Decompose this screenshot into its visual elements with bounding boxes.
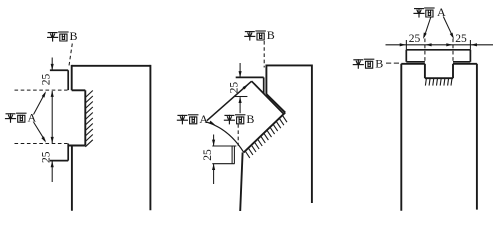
fig3 extension tick left [405,40,407,50]
svg-text:25: 25 [41,74,53,86]
fig3 slot left wall [424,64,426,78]
svg-text:A: A [437,5,446,19]
fig2 hatching on 45-degree face [245,115,287,158]
fig1 recess bottom step [68,145,85,147]
fig3 arrow dim outer left [400,43,406,46]
fig2 top end piece vertical (plane B end) [263,77,265,93]
fig3 plate bottom face right segment (plane B) [453,61,470,63]
svg-text:B: B [246,112,254,126]
fig1 plate face lower segment (plane B) [67,144,69,161]
fig1 arrow top dim down [51,64,54,70]
fig1 block left edge upper [71,65,73,90]
fig1 arrow span down [51,137,54,143]
fig2 extension line mid [234,96,247,98]
fig1 middle span line [51,91,53,143]
fig3 extension tick right [469,40,471,50]
fig1 plate top end edge [50,69,68,71]
fig1 plate face upper segment (plane B) [67,70,69,90]
fig1 plate bottom end edge [50,160,68,162]
svg-text:25: 25 [229,82,241,94]
fig3 block top edge right [453,63,477,65]
fig2 label plane B top [245,28,275,42]
fig2 bottom dimension line lower [213,164,215,184]
fig1 arrow bottom dim up [51,161,54,167]
fig3 label plane B [353,56,383,70]
fig1 label plane A [6,110,37,124]
fig3 plane A leader right [443,17,452,36]
fig3 plane A leader left [424,17,431,37]
fig3 arrow dim inner right [446,43,452,46]
fig1 dashed limit line lower [15,143,68,145]
fig3 dimension line [386,44,494,46]
fig3 arrow dim inner left [425,43,431,46]
fig2 top end piece horizontal [236,76,264,78]
svg-text:B: B [375,56,383,70]
fig1 bottom dimension line [51,161,53,182]
fig1 recess top step [72,89,86,91]
fig2 plate lower-left edge as curved leader [206,122,243,152]
svg-text:25: 25 [455,33,467,45]
fig2 arrow leader upper [243,83,250,89]
fig3 arrow leader right [450,33,456,40]
fig3 dashed slot wall extension right [452,39,454,62]
fig2 block top edge [266,64,312,66]
fig1 arrow span up [51,91,54,97]
fig1 label plane B [48,29,78,43]
svg-text:25: 25 [202,149,214,161]
fig1 arrow leader lower [41,136,47,143]
svg-text:25: 25 [409,33,421,45]
svg-text:A: A [28,110,37,124]
fig2 dashed leader from plane B middle label [237,124,239,146]
fig2 notch chamfer upper wall [266,94,285,113]
fig3 block right edge [476,64,478,210]
fig1 arrow leader upper [42,91,48,98]
fig3 plate top edge [406,49,470,51]
fig3 plate bottom face left segment (plane B) [406,61,425,63]
fig2 block left edge [265,65,267,95]
fig3 arrow dim outer right [471,43,477,46]
fig3 slot right wall [452,64,454,78]
fig3 hatching under slot bottom [425,78,452,85]
fig2 arrow mid up [239,97,242,103]
fig2 dashed leader from plane B top label [263,41,265,68]
fig2 end piece vertical a [231,146,233,164]
fig3 plate left end edge [405,50,407,62]
fig1 plane A leader upper [34,93,46,115]
fig1 block right edge [149,65,151,210]
fig2 extension line bottom upper [212,145,236,147]
fig1 hatching on plane A [85,91,93,147]
fig2 arrow top dim down [239,71,242,77]
fig2 plate upper-right edge [252,81,284,114]
fig1 top dimension line [51,58,53,70]
fig1 plane A leader lower [34,122,46,141]
fig2 top dim lower arrow tail [239,97,241,113]
fig2 block lower left edge [240,152,242,211]
fig2 label plane B middle [224,112,254,126]
fig3 dashed slot wall extension left [424,39,426,62]
fig2 arrow bottom dim up [212,164,215,170]
fig3 plate right end edge [469,50,471,62]
fig2 bottom dimension line upper [213,135,215,146]
fig1 block left edge lower [71,146,73,211]
svg-text:25: 25 [41,151,53,163]
fig2 arrow bottom dim down [212,140,215,146]
fig3 label plane A [414,5,446,19]
fig2 block right edge [311,65,313,204]
fig1 block top edge [72,65,151,67]
fig2 top dimension line [239,63,241,77]
fig3 dashed leader from plane B label [386,62,400,64]
fig1 dashed leader from plane B label [69,44,73,68]
fig2 notch 45-degree face plane A (hatched) [244,113,286,153]
fig2 plate upper-left edge with plane A leader (collinear) [207,81,252,121]
svg-text:B: B [267,28,275,42]
fig2 label plane A [177,112,208,126]
fig1 recess face plane A [84,90,86,145]
svg-text:B: B [70,29,78,43]
fig3 block top edge left [401,63,425,65]
fig1 dashed limit line upper [15,89,68,91]
fig3 slot bottom plane A [425,77,453,79]
fig2 end piece vertical b [233,146,235,164]
fig2 extension line bottom lower [212,163,234,165]
fig3 block left edge [400,64,402,211]
fig3 arrow leader left [422,33,427,40]
svg-text:A: A [199,112,208,126]
fig2 arrow leader lower [209,121,216,127]
